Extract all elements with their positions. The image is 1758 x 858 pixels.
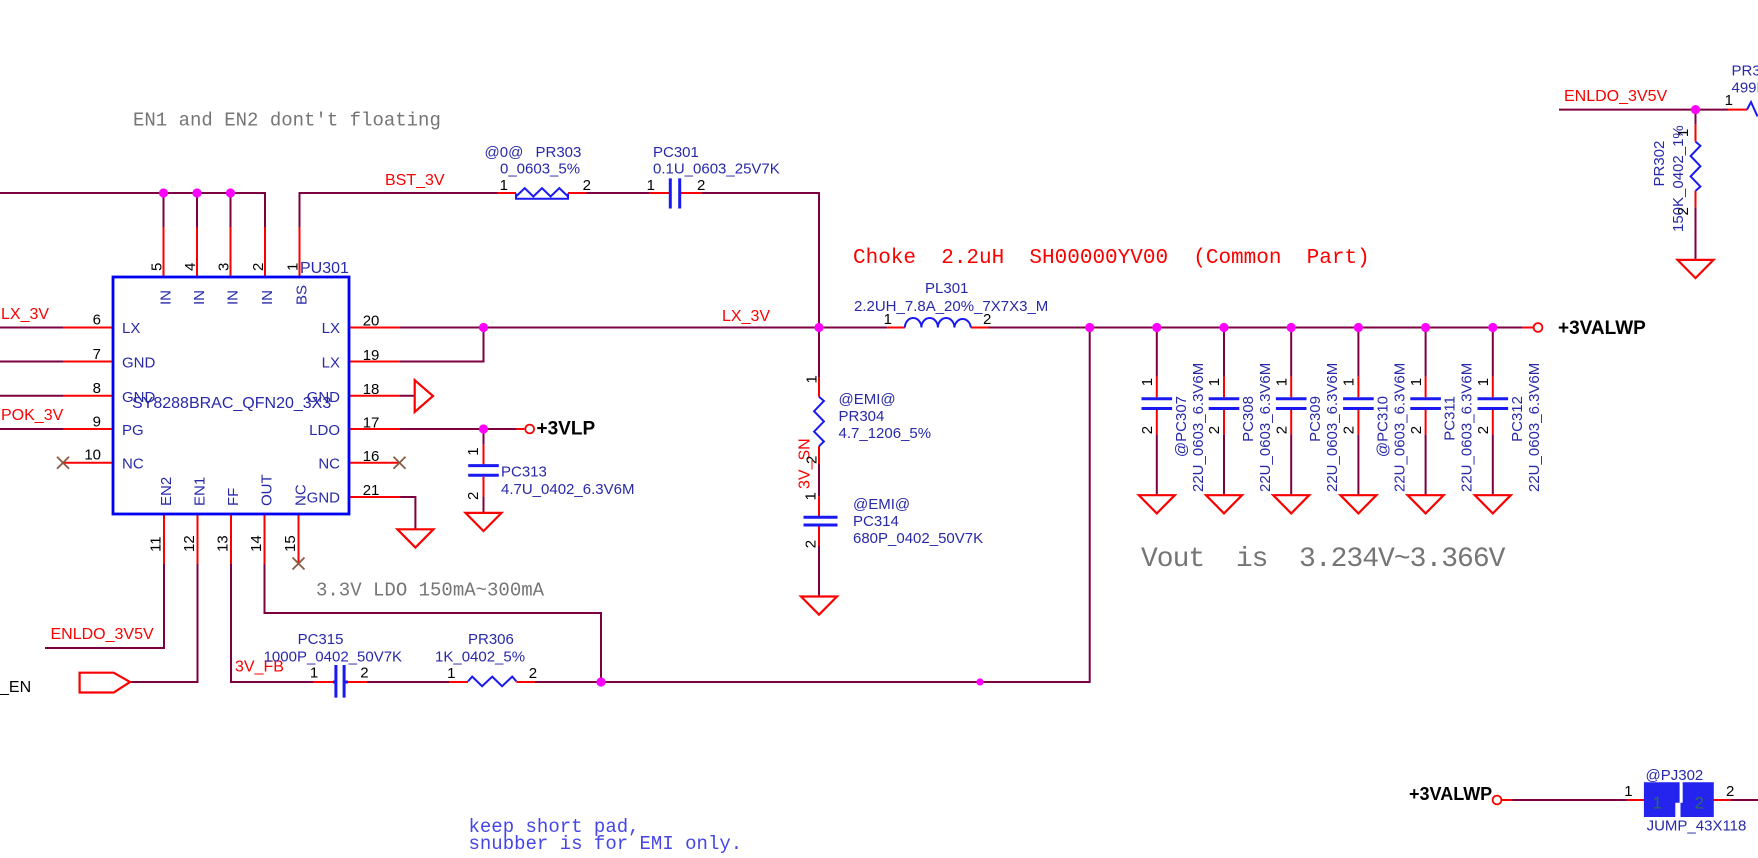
svg-text:1: 1 [465, 447, 482, 455]
svg-text:1: 1 [884, 311, 892, 328]
svg-text:IN: IN [191, 290, 208, 305]
svg-text:680P_0402_50V7K: 680P_0402_50V7K [853, 530, 983, 547]
svg-text:GND: GND [122, 355, 156, 372]
svg-text:13: 13 [215, 535, 232, 552]
svg-text:2: 2 [1726, 783, 1734, 800]
svg-text:BS: BS [294, 285, 311, 305]
svg-text:15: 15 [282, 535, 299, 552]
svg-text:EN1 and EN2 dont't floating: EN1 and EN2 dont't floating [133, 110, 441, 132]
svg-text:PC313: PC313 [501, 464, 547, 481]
svg-text:GND: GND [122, 389, 156, 406]
svg-text:2: 2 [1273, 426, 1290, 434]
svg-text:8: 8 [93, 380, 101, 397]
svg-text:2: 2 [1341, 426, 1358, 434]
svg-text:20: 20 [363, 312, 380, 329]
svg-text:POK_3V: POK_3V [1, 407, 64, 424]
svg-text:@PJ302: @PJ302 [1646, 767, 1704, 784]
svg-text:PC315: PC315 [298, 631, 344, 648]
svg-text:2: 2 [1475, 426, 1492, 434]
svg-text:GND: GND [307, 389, 341, 406]
svg-text:SY8288BRAC_QFN20_3X3: SY8288BRAC_QFN20_3X3 [132, 395, 331, 412]
svg-text:IN: IN [158, 290, 175, 305]
svg-text:2: 2 [1139, 426, 1156, 434]
svg-text:@PC307: @PC307 [1173, 396, 1190, 457]
svg-text:1: 1 [804, 375, 821, 383]
svg-text:1: 1 [500, 177, 508, 194]
svg-text:IN: IN [225, 290, 242, 305]
svg-text:LX: LX [322, 355, 340, 372]
svg-text:LX: LX [122, 320, 140, 337]
svg-text:PL301: PL301 [925, 280, 968, 297]
svg-text:@EMI@: @EMI@ [853, 496, 910, 513]
svg-text:4.7_1206_5%: 4.7_1206_5% [839, 425, 932, 442]
svg-text:3.3V LDO 150mA~300mA: 3.3V LDO 150mA~300mA [316, 580, 545, 602]
svg-text:Vout is 3.234V~3.366V: Vout is 3.234V~3.366V [1141, 544, 1506, 575]
svg-text:2: 2 [802, 540, 819, 548]
svg-text:1: 1 [1273, 378, 1290, 386]
svg-text:2: 2 [360, 665, 368, 682]
svg-text:_EN: _EN [0, 679, 31, 696]
svg-text:22U_0603_6.3V6M: 22U_0603_6.3V6M [1257, 363, 1274, 492]
svg-text:snubber is for EMI only.: snubber is for EMI only. [469, 833, 743, 853]
svg-text:PU301: PU301 [300, 260, 349, 277]
svg-text:7: 7 [93, 346, 101, 363]
svg-text:2: 2 [1408, 426, 1425, 434]
svg-text:Choke 2.2uH SH00000YV00 (Co: Choke 2.2uH SH00000YV00 (Common Part) [853, 247, 1370, 270]
svg-text:1: 1 [1725, 92, 1733, 109]
svg-text:FF: FF [225, 488, 242, 506]
svg-text:+3VLP: +3VLP [537, 419, 596, 440]
svg-text:1K_0402_5%: 1K_0402_5% [435, 649, 525, 666]
svg-text:2: 2 [983, 311, 991, 328]
svg-text:2: 2 [1675, 207, 1692, 215]
svg-text:1: 1 [1341, 378, 1358, 386]
svg-text:22U_0603_6.3V6M: 22U_0603_6.3V6M [1391, 363, 1408, 492]
svg-text:11: 11 [148, 536, 165, 552]
svg-text:4: 4 [182, 263, 199, 271]
svg-text:2: 2 [697, 177, 705, 194]
svg-text:16: 16 [363, 448, 380, 465]
svg-text:1: 1 [447, 665, 455, 682]
svg-text:JUMP_43X118: JUMP_43X118 [1647, 818, 1747, 835]
svg-text:EN1: EN1 [192, 477, 209, 506]
svg-text:PC311: PC311 [1442, 396, 1459, 441]
svg-text:14: 14 [248, 535, 265, 552]
svg-text:1: 1 [1675, 129, 1692, 137]
svg-text:NC: NC [318, 456, 340, 473]
svg-text:LDO: LDO [309, 422, 340, 439]
svg-text:22U_0603_6.3V6M: 22U_0603_6.3V6M [1526, 363, 1543, 492]
svg-text:NC: NC [293, 484, 310, 506]
svg-text:@0@: @0@ [485, 144, 524, 161]
svg-text:PR3: PR3 [1732, 63, 1758, 80]
svg-text:1: 1 [285, 263, 302, 271]
svg-text:2: 2 [465, 492, 482, 500]
svg-text:PR303: PR303 [536, 144, 582, 161]
svg-text:1: 1 [647, 177, 655, 194]
svg-text:5: 5 [149, 263, 166, 271]
svg-text:LX: LX [322, 320, 340, 337]
svg-text:GND: GND [307, 490, 341, 507]
svg-text:3: 3 [216, 263, 233, 271]
svg-text:PC312: PC312 [1509, 396, 1526, 442]
svg-text:22U_0603_6.3V6M: 22U_0603_6.3V6M [1459, 363, 1476, 492]
svg-text:@PC310: @PC310 [1374, 396, 1391, 457]
svg-text:0_0603_5%: 0_0603_5% [500, 161, 580, 178]
svg-text:+3VALWP: +3VALWP [1558, 318, 1646, 339]
svg-text:1: 1 [1408, 378, 1425, 386]
svg-text:EN2: EN2 [158, 477, 175, 506]
svg-text:BST_3V: BST_3V [385, 172, 445, 189]
svg-text:2: 2 [804, 456, 821, 464]
svg-text:PR304: PR304 [839, 408, 885, 425]
svg-text:NC: NC [122, 456, 144, 473]
svg-text:ENLDO_3V5V: ENLDO_3V5V [51, 626, 154, 643]
svg-text:OUT: OUT [259, 474, 276, 506]
svg-text:1: 1 [1206, 378, 1223, 386]
svg-text:22U_0603_6.3V6M: 22U_0603_6.3V6M [1190, 363, 1207, 492]
svg-text:9: 9 [93, 414, 101, 431]
svg-text:1000P_0402_50V7K: 1000P_0402_50V7K [264, 649, 402, 666]
svg-text:2: 2 [1695, 794, 1704, 813]
svg-text:PC314: PC314 [853, 513, 899, 530]
svg-text:PC309: PC309 [1307, 396, 1324, 442]
svg-text:2: 2 [583, 177, 591, 194]
svg-text:@EMI@: @EMI@ [839, 391, 896, 408]
svg-text:1: 1 [310, 665, 318, 682]
svg-text:18: 18 [363, 381, 380, 398]
svg-text:12: 12 [181, 535, 198, 552]
svg-text:499K: 499K [1732, 80, 1758, 97]
svg-text:6: 6 [93, 312, 101, 329]
svg-text:LX_3V: LX_3V [1, 306, 49, 323]
svg-text:21: 21 [363, 482, 380, 499]
svg-text:2: 2 [250, 263, 267, 271]
svg-text:19: 19 [363, 347, 380, 364]
svg-text:PG: PG [122, 422, 144, 439]
svg-text:4.7U_0402_6.3V6M: 4.7U_0402_6.3V6M [501, 481, 634, 498]
svg-text:2: 2 [529, 665, 537, 682]
svg-text:1: 1 [1475, 378, 1492, 386]
svg-text:10: 10 [84, 447, 101, 464]
svg-text:22U_0603_6.3V6M: 22U_0603_6.3V6M [1324, 363, 1341, 492]
svg-text:1: 1 [1653, 794, 1662, 813]
svg-text:1: 1 [1624, 783, 1632, 800]
svg-text:PR302: PR302 [1651, 141, 1668, 187]
svg-text:1: 1 [802, 492, 819, 500]
svg-text:PC308: PC308 [1240, 396, 1257, 442]
svg-text:PC301: PC301 [653, 144, 699, 161]
svg-text:0.1U_0603_25V7K: 0.1U_0603_25V7K [653, 161, 780, 178]
svg-text:IN: IN [259, 290, 276, 305]
svg-text:+3VALWP: +3VALWP [1409, 784, 1492, 804]
svg-text:PR306: PR306 [468, 631, 514, 648]
svg-text:17: 17 [363, 414, 380, 431]
svg-text:1: 1 [1139, 378, 1156, 386]
svg-text:ENLDO_3V5V: ENLDO_3V5V [1564, 88, 1667, 105]
svg-text:LX_3V: LX_3V [722, 308, 770, 325]
svg-text:2: 2 [1206, 426, 1223, 434]
